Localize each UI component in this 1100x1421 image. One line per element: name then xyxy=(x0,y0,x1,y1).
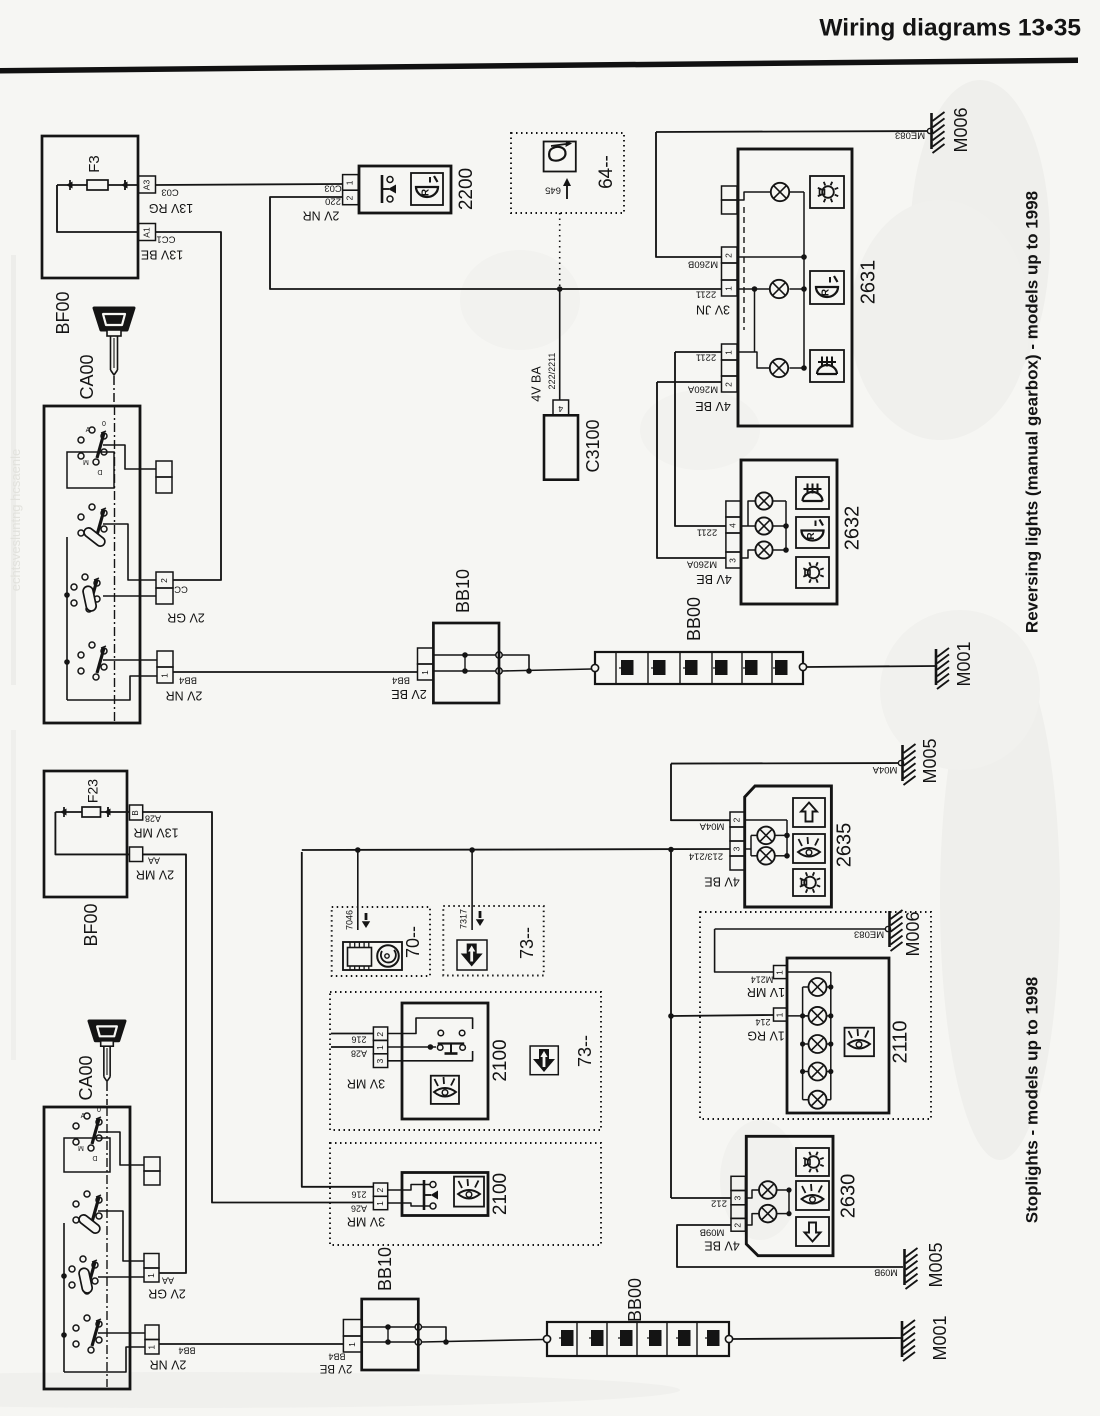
svg-text:1: 1 xyxy=(347,1342,357,1347)
svg-text:4V BE: 4V BE xyxy=(696,572,731,586)
svg-text:BB4: BB4 xyxy=(392,674,410,685)
svg-text:M006: M006 xyxy=(903,911,923,956)
svg-text:1: 1 xyxy=(420,670,430,675)
svg-text:3: 3 xyxy=(728,558,738,563)
svg-text:D: D xyxy=(92,1154,97,1161)
svg-text:1: 1 xyxy=(774,970,784,975)
svg-text:AA: AA xyxy=(148,856,160,866)
svg-text:1: 1 xyxy=(724,350,734,355)
svg-text:1V MR: 1V MR xyxy=(747,985,785,999)
svg-text:A: A xyxy=(86,427,91,434)
svg-text:1: 1 xyxy=(345,180,355,185)
svg-text:2110: 2110 xyxy=(889,1020,911,1063)
svg-text:4V BE: 4V BE xyxy=(695,399,730,413)
svg-text:R: R xyxy=(806,532,817,540)
svg-text:2: 2 xyxy=(724,253,734,258)
svg-text:BB00: BB00 xyxy=(684,597,704,641)
svg-text:A26: A26 xyxy=(351,1204,367,1214)
svg-text:2V NR: 2V NR xyxy=(150,1358,187,1372)
svg-text:2211: 2211 xyxy=(696,351,716,362)
svg-text:1: 1 xyxy=(375,1201,385,1206)
svg-text:M260B: M260B xyxy=(688,258,718,269)
svg-text:M005: M005 xyxy=(926,1242,946,1287)
svg-text:R: R xyxy=(821,288,832,296)
svg-text:CC1: CC1 xyxy=(156,233,175,244)
svg-text:M214: M214 xyxy=(751,975,774,985)
svg-text:AA: AA xyxy=(162,1276,174,1286)
svg-text:2211: 2211 xyxy=(697,526,717,537)
svg-text:CA00: CA00 xyxy=(76,1055,96,1100)
svg-text:CC: CC xyxy=(174,583,188,594)
svg-text:216: 216 xyxy=(351,1035,366,1045)
svg-text:F3: F3 xyxy=(86,155,103,173)
svg-text:0: 0 xyxy=(102,421,106,428)
svg-text:A1: A1 xyxy=(141,227,151,238)
svg-text:2635: 2635 xyxy=(833,823,855,868)
svg-text:3V MR: 3V MR xyxy=(347,1077,385,1091)
svg-text:4: 4 xyxy=(558,404,563,414)
svg-text:BB00: BB00 xyxy=(625,1278,645,1322)
svg-text:1V RG: 1V RG xyxy=(747,1029,785,1043)
svg-text:222/2211: 222/2211 xyxy=(547,353,557,390)
svg-text:4V BE: 4V BE xyxy=(704,1239,739,1253)
svg-text:Wiring diagrams 13•35: Wiring diagrams 13•35 xyxy=(819,14,1081,41)
svg-text:2: 2 xyxy=(732,1223,742,1228)
svg-text:2: 2 xyxy=(724,382,734,387)
svg-text:F23: F23 xyxy=(85,779,101,803)
svg-text:M260A: M260A xyxy=(687,383,718,394)
svg-text:2631: 2631 xyxy=(857,260,879,305)
svg-text:216: 216 xyxy=(351,1190,366,1200)
svg-text:3: 3 xyxy=(375,1059,385,1064)
svg-text:3: 3 xyxy=(732,846,742,851)
svg-text:M04A: M04A xyxy=(872,764,897,775)
svg-text:1: 1 xyxy=(159,673,169,678)
svg-text:echtsvesluntng hcsaenle: echtsvesluntng hcsaenle xyxy=(8,449,23,591)
svg-text:M: M xyxy=(78,1144,84,1151)
svg-text:CA00: CA00 xyxy=(77,354,97,399)
svg-text:M001: M001 xyxy=(954,641,974,686)
svg-text:4V BE: 4V BE xyxy=(704,875,739,889)
svg-text:2V BE: 2V BE xyxy=(319,1362,352,1374)
svg-text:2100: 2100 xyxy=(490,1173,511,1215)
svg-text:BB10: BB10 xyxy=(375,1247,395,1291)
svg-text:64--: 64-- xyxy=(596,155,617,189)
svg-text:212: 212 xyxy=(711,1197,727,1208)
svg-text:BF00: BF00 xyxy=(81,903,101,946)
svg-text:BB4: BB4 xyxy=(328,1352,345,1362)
svg-text:M: M xyxy=(83,458,89,465)
svg-text:M001: M001 xyxy=(930,1315,950,1360)
svg-text:BB4: BB4 xyxy=(179,674,197,685)
svg-text:70--: 70-- xyxy=(403,926,423,958)
svg-text:2: 2 xyxy=(375,1188,385,1193)
svg-text:C03: C03 xyxy=(161,186,178,197)
svg-text:R: R xyxy=(421,188,432,196)
svg-text:ME083: ME083 xyxy=(854,928,884,939)
svg-text:2V MR: 2V MR xyxy=(136,868,174,882)
svg-text:2V BE: 2V BE xyxy=(391,687,426,701)
svg-text:13V BE: 13V BE xyxy=(141,248,183,262)
svg-text:M09B: M09B xyxy=(700,1226,725,1237)
svg-text:M260A: M260A xyxy=(686,558,717,569)
svg-text:1: 1 xyxy=(375,1045,385,1050)
svg-text:2V GR: 2V GR xyxy=(148,1287,186,1301)
svg-text:3V MR: 3V MR xyxy=(347,1215,385,1229)
svg-text:BB4: BB4 xyxy=(178,1346,195,1356)
svg-text:2: 2 xyxy=(345,195,355,200)
svg-text:7317: 7317 xyxy=(458,909,468,929)
svg-text:M09B: M09B xyxy=(874,1268,898,1278)
svg-text:3: 3 xyxy=(732,1196,742,1201)
svg-text:A: A xyxy=(81,1113,86,1120)
svg-text:645: 645 xyxy=(545,184,561,195)
svg-text:A28: A28 xyxy=(145,814,161,824)
svg-text:2V GR: 2V GR xyxy=(167,611,205,625)
svg-text:213/214: 213/214 xyxy=(689,850,723,861)
svg-text:C3100: C3100 xyxy=(583,419,603,472)
svg-text:D: D xyxy=(97,468,102,475)
svg-text:4V BA: 4V BA xyxy=(529,366,543,402)
svg-text:BF00: BF00 xyxy=(53,291,73,334)
svg-text:3V JN: 3V JN xyxy=(696,303,730,317)
svg-text:A3: A3 xyxy=(141,180,151,191)
svg-text:B: B xyxy=(131,810,140,815)
svg-text:2V NR: 2V NR xyxy=(166,689,203,703)
svg-text:Stoplights - models up to 1998: Stoplights - models up to 1998 xyxy=(1022,977,1041,1224)
svg-text:1: 1 xyxy=(146,1345,156,1350)
svg-text:13V MR: 13V MR xyxy=(133,826,178,840)
svg-text:1: 1 xyxy=(774,1012,784,1017)
svg-text:7046: 7046 xyxy=(344,910,354,930)
svg-text:4: 4 xyxy=(728,523,738,528)
svg-text:1: 1 xyxy=(724,286,734,291)
svg-text:0: 0 xyxy=(97,1107,101,1114)
svg-text:73--: 73-- xyxy=(517,927,537,959)
svg-text:2V NR: 2V NR xyxy=(303,209,340,223)
svg-text:BB10: BB10 xyxy=(453,569,473,613)
svg-text:M04A: M04A xyxy=(699,820,724,831)
svg-text:2630: 2630 xyxy=(837,1174,859,1219)
svg-text:214: 214 xyxy=(755,1017,770,1027)
svg-text:73--: 73-- xyxy=(575,1035,595,1067)
svg-text:2: 2 xyxy=(732,817,742,822)
svg-text:2200: 2200 xyxy=(456,168,477,210)
svg-text:2632: 2632 xyxy=(841,506,863,551)
svg-text:ME083: ME083 xyxy=(895,129,925,140)
svg-text:A28: A28 xyxy=(351,1049,367,1059)
svg-text:13V RG: 13V RG xyxy=(149,201,193,215)
svg-text:M006: M006 xyxy=(951,107,971,152)
svg-text:2: 2 xyxy=(159,578,169,583)
svg-text:2100: 2100 xyxy=(490,1039,511,1081)
svg-text:M005: M005 xyxy=(920,738,940,783)
svg-text:1: 1 xyxy=(146,1273,156,1278)
svg-text:Reversing lights (manual gearb: Reversing lights (manual gearbox) - mode… xyxy=(1022,191,1041,633)
svg-text:C03: C03 xyxy=(324,182,341,193)
svg-text:2: 2 xyxy=(375,1032,385,1037)
svg-text:2211: 2211 xyxy=(696,288,716,299)
